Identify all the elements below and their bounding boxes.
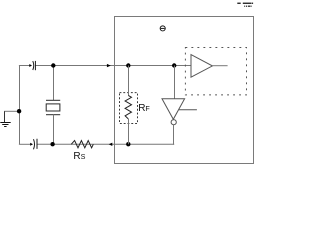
svg-text:RS: RS xyxy=(73,151,85,162)
svg-text:RF: RF xyxy=(138,103,150,114)
